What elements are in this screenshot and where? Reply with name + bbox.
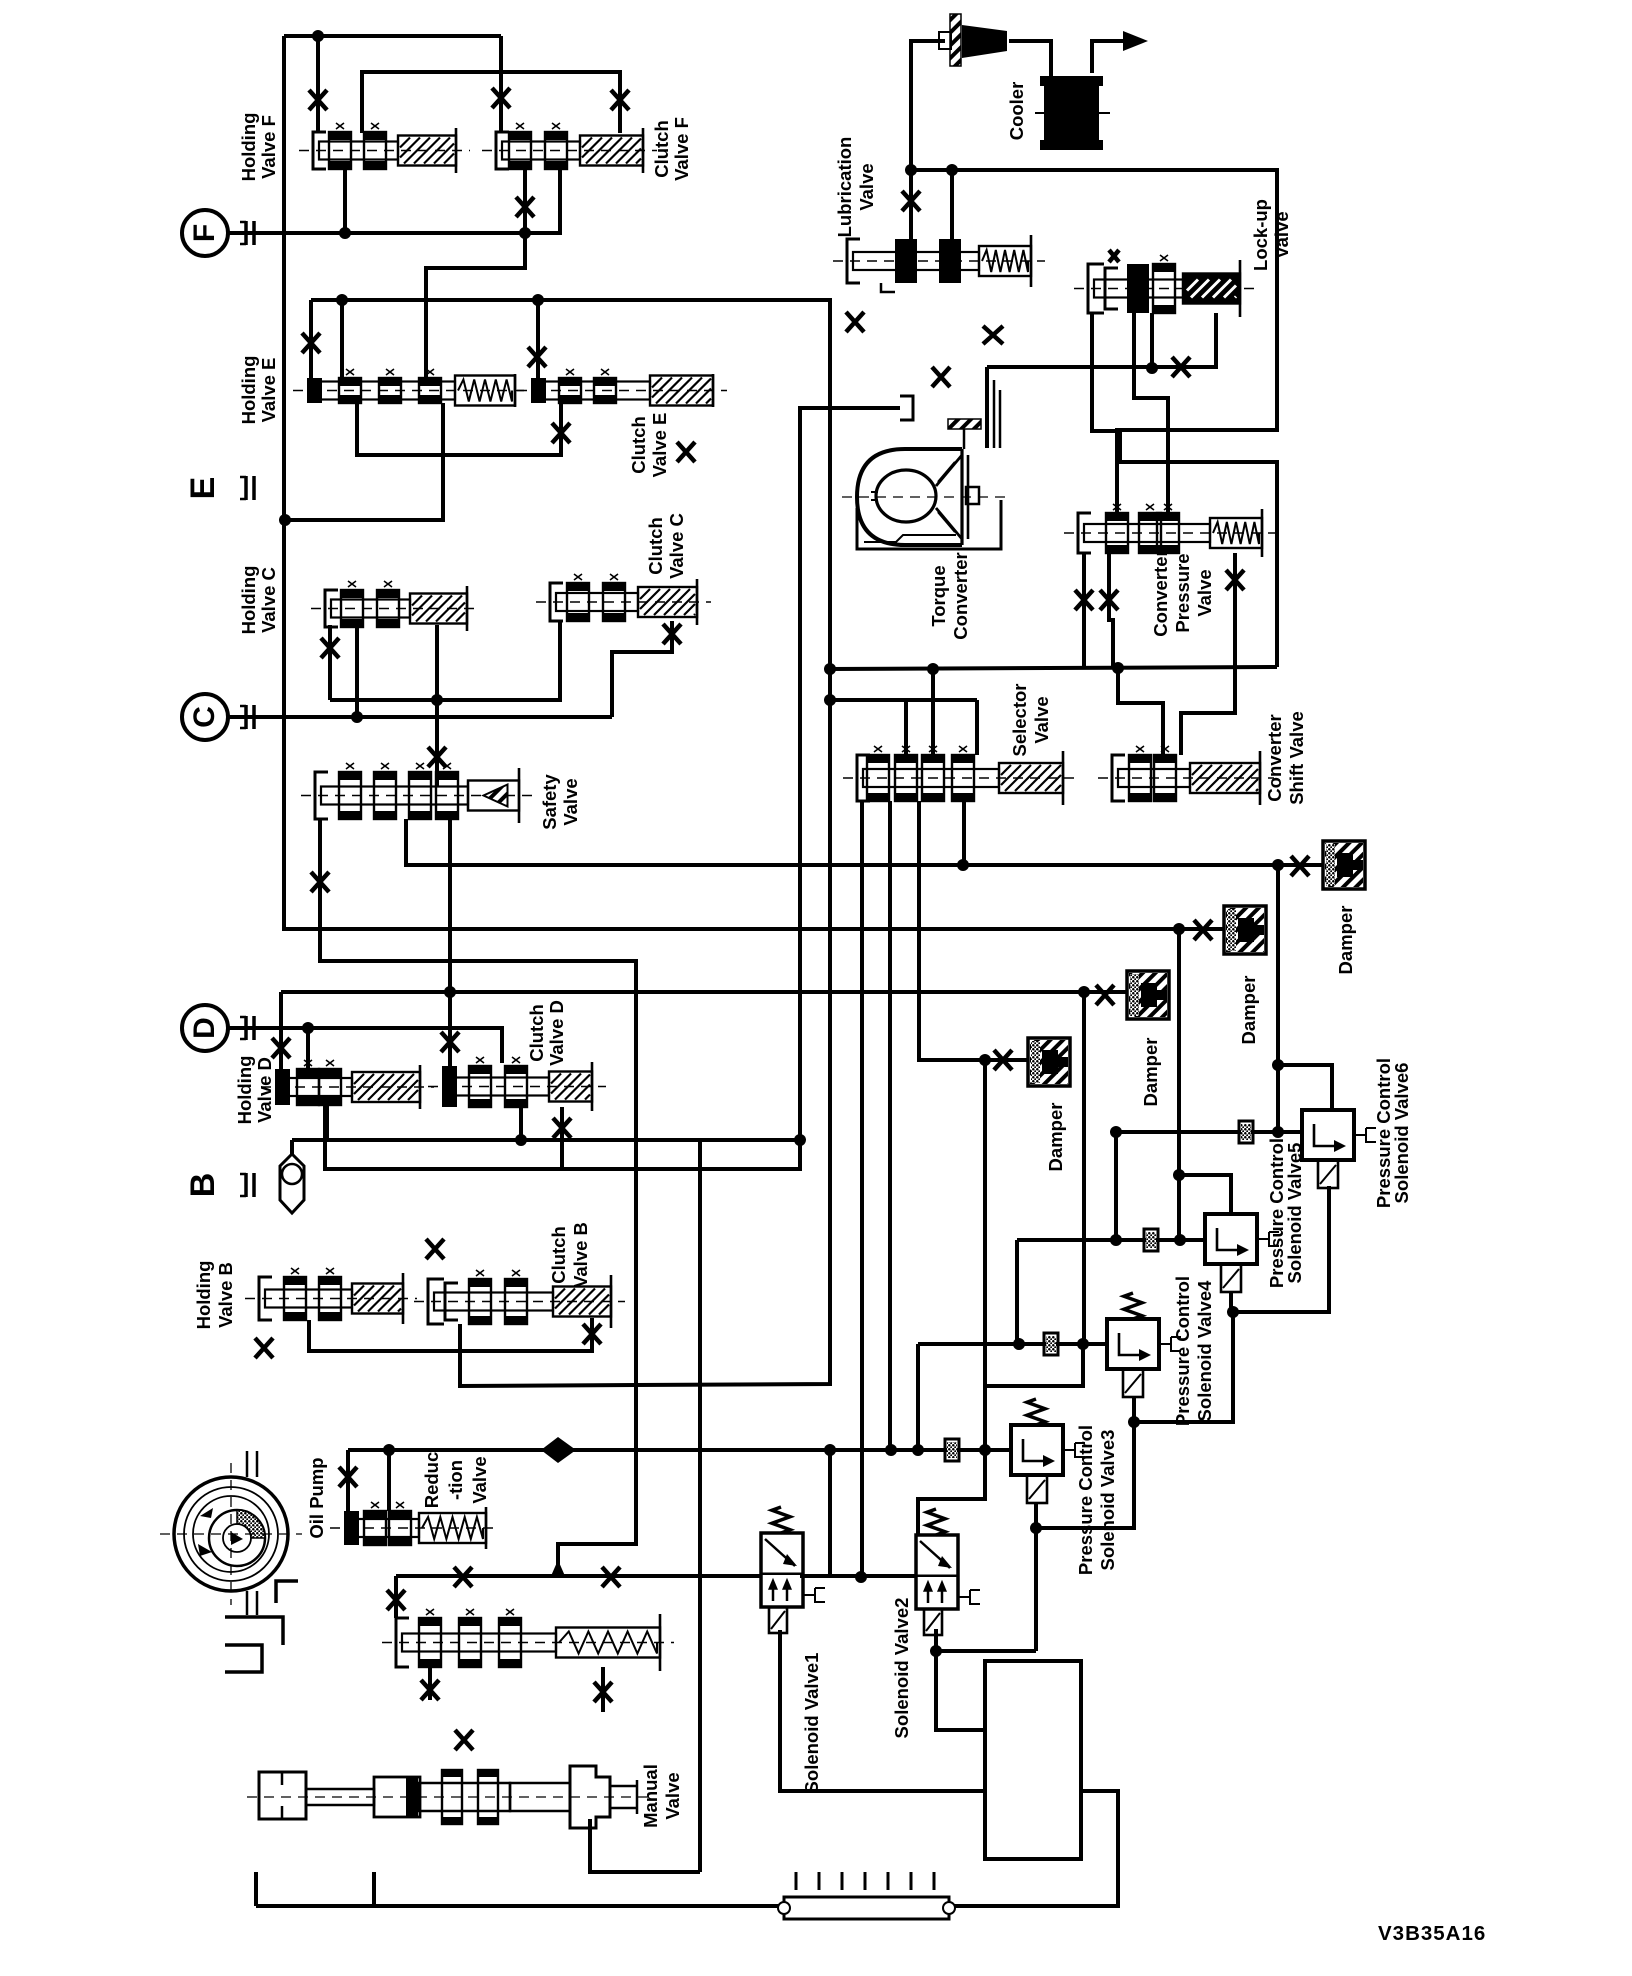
label holding valve D <box>234 1056 275 1125</box>
label damper 1 <box>1045 1103 1066 1172</box>
converter shift valve <box>1098 746 1274 805</box>
pressure control solenoid valve 6 <box>1302 1110 1376 1188</box>
orifice damper2 feed <box>1194 920 1212 940</box>
label solenoid valve 1 <box>801 1653 822 1794</box>
junction pcs5 link <box>1227 1306 1239 1318</box>
orifice damper4 feed <box>1291 856 1309 876</box>
wire sv2 loop <box>918 1450 985 1535</box>
port symbol E <box>240 476 254 500</box>
controller box <box>985 1661 1081 1859</box>
wire clutch D port1 <box>448 991 452 1066</box>
svg-text:E: E <box>184 477 222 500</box>
wire bottom suction bus <box>256 1904 784 1908</box>
junction E drain <box>279 514 291 526</box>
svg-text:Holding: Holding <box>193 1261 214 1330</box>
svg-text:Safety: Safety <box>539 774 560 830</box>
svg-text:Damper: Damper <box>1140 1038 1161 1107</box>
junction pcs4 bus a <box>1013 1338 1025 1350</box>
wire pcs5 top feed <box>1179 1175 1231 1214</box>
port symbol B <box>240 1173 254 1197</box>
wire holding C drop2 <box>355 625 359 717</box>
wire lockup port b <box>1134 313 1168 513</box>
accumulator <box>280 1154 304 1213</box>
port bracket mid <box>900 396 913 420</box>
torque converter <box>842 419 1012 549</box>
svg-text:Reduc: Reduc <box>421 1452 442 1509</box>
svg-text:Holding: Holding <box>238 356 259 425</box>
orifice safety drain <box>311 872 329 892</box>
wire pcs4 bus <box>918 1344 1107 1450</box>
wire holding E port2 drop <box>340 300 344 378</box>
damper 2 <box>1224 906 1266 954</box>
label PCS5 <box>1266 1138 1305 1288</box>
orifice tc line <box>1172 357 1190 377</box>
filter pcs5 <box>1144 1229 1158 1251</box>
junction loop 1118 <box>1112 662 1124 674</box>
svg-text:Valve: Valve <box>662 1772 683 1819</box>
wire pcs3 solenoid out <box>1034 1504 1038 1651</box>
orifice safety feed <box>428 747 446 767</box>
junction F bus crossing <box>519 227 531 239</box>
svg-text:Holding: Holding <box>234 1056 255 1125</box>
junction C bus <box>351 711 363 723</box>
svg-text:Holding: Holding <box>238 566 259 635</box>
wire main loop bus <box>830 667 1277 669</box>
junction lube port <box>905 164 917 176</box>
wire selector top line <box>830 698 977 702</box>
wire manual valve drain <box>590 1819 700 1872</box>
junction E bus a <box>336 294 348 306</box>
node D <box>182 1005 228 1051</box>
filter pcs6 <box>1239 1121 1253 1143</box>
orifice lockup top <box>1109 250 1119 262</box>
wire tc feed drop <box>985 367 989 448</box>
suction strainer <box>778 1872 955 1919</box>
wire bottom stub 2 <box>372 1872 376 1906</box>
lubrication valve tab <box>881 283 895 292</box>
svg-text:Converter: Converter <box>950 552 971 639</box>
wire C bus <box>229 715 612 719</box>
solenoid valve 1 <box>761 1533 825 1633</box>
label manual valve <box>640 1764 683 1828</box>
reduction valve <box>330 1502 500 1549</box>
wire accumulator stem <box>290 1140 294 1154</box>
solenoid valve 2 <box>916 1535 980 1635</box>
svg-text:D: D <box>188 1017 221 1039</box>
junction D line <box>302 1022 314 1034</box>
junction bus1 selector <box>957 859 969 871</box>
label converter shift valve <box>1264 711 1307 805</box>
svg-text:B: B <box>184 1173 222 1198</box>
wire clutch F drain jog <box>426 169 525 378</box>
wire regulator drain left <box>428 1667 432 1700</box>
junction bus 918 <box>912 1444 924 1456</box>
label holding valve B <box>193 1261 236 1330</box>
wire safety to D bus <box>448 819 452 992</box>
label PCS4 <box>1172 1276 1215 1426</box>
wire clutch C drain <box>612 621 672 717</box>
wire C link line <box>330 621 560 700</box>
orifice clutch F spring <box>611 90 629 110</box>
wire selector port a <box>904 700 908 755</box>
junction pcs6 bus r <box>1272 1126 1284 1138</box>
wire regulator drain spring <box>601 1667 605 1712</box>
wire main pressure bus <box>348 1448 1011 1452</box>
label clutch valve C <box>645 513 687 579</box>
wire F bus <box>229 169 560 233</box>
wire safety left drain <box>320 819 636 1574</box>
wire safety feed <box>435 625 439 786</box>
wire conv pressure pilot <box>1233 553 1237 605</box>
wire pcs5 solenoid out <box>1229 1291 1233 1312</box>
junction loop left <box>824 663 836 675</box>
wire pcs4 riser <box>1082 992 1086 1344</box>
orifice regulator left <box>387 1590 405 1610</box>
svg-text:Cooler: Cooler <box>1006 82 1027 141</box>
wire damper3 stub <box>1084 990 1127 994</box>
svg-text:Pressure: Pressure <box>1172 553 1193 632</box>
wire conv pressure drop2 <box>1109 553 1113 668</box>
wire selector down a <box>860 801 864 1576</box>
orifice clutch D drain <box>553 1118 571 1138</box>
wire holding B bottom link <box>309 1318 592 1351</box>
manual valve symbol <box>247 1766 652 1828</box>
wire link 1116 <box>1114 1132 1118 1240</box>
pressure control solenoid valve 4 <box>1107 1319 1181 1397</box>
holding valve D <box>261 1060 434 1109</box>
svg-text:Solenoid Valve4: Solenoid Valve4 <box>1194 1280 1215 1422</box>
label damper 3 <box>1140 1038 1161 1107</box>
wire pcs6 bus <box>1116 1130 1302 1134</box>
orifice clutch B drain <box>583 1324 601 1344</box>
wire D circle line <box>229 1028 502 1063</box>
wire selector port c <box>975 700 979 755</box>
arrow into regulator bus <box>551 1560 565 1576</box>
junction D bus tap <box>444 986 456 998</box>
svg-text:Damper: Damper <box>1045 1103 1066 1172</box>
holding valve C <box>311 581 481 631</box>
junction pcs6 riser mid <box>1272 1059 1284 1071</box>
svg-text:Manual: Manual <box>640 1764 661 1828</box>
svg-text:Shift Valve: Shift Valve <box>1286 711 1307 805</box>
label lock-up valve <box>1250 199 1292 271</box>
wire pcs6 top feed <box>1278 1065 1332 1110</box>
svg-text:Clutch: Clutch <box>651 120 672 178</box>
wire clutch F port drop <box>499 36 503 133</box>
svg-text:Valve: Valve <box>560 778 581 825</box>
wire clutch D bottom <box>519 1107 523 1140</box>
svg-text:C: C <box>188 706 221 728</box>
svg-text:Converter: Converter <box>1150 549 1171 636</box>
wire F loop line <box>362 72 620 133</box>
wire selector port b <box>931 669 935 755</box>
wire holding D bottom <box>325 1105 329 1140</box>
junction D return <box>515 1134 527 1146</box>
orifice conv pressure pilot <box>1226 570 1244 590</box>
spring PCS4 <box>1124 1293 1142 1319</box>
svg-text:Selector: Selector <box>1009 683 1030 756</box>
svg-text:Solenoid Valve3: Solenoid Valve3 <box>1097 1430 1118 1571</box>
orifice lubrication <box>902 191 920 211</box>
filter pcs3 <box>945 1439 959 1461</box>
orifice conv pressure 2 <box>1100 590 1118 610</box>
svg-text:F: F <box>188 224 221 242</box>
spring PCS3 <box>1027 1399 1045 1425</box>
label torque converter <box>928 552 971 639</box>
damper 1 <box>1028 1038 1070 1086</box>
junction pcs4 link <box>1128 1416 1140 1428</box>
wire strainer to ECU <box>949 1791 1118 1906</box>
wire pcs5 bus <box>1017 1240 1205 1344</box>
wire holding D port1 <box>279 992 283 1069</box>
svg-text:Valve: Valve <box>469 1456 490 1503</box>
label holding valve F <box>238 113 279 182</box>
wire cooler out arrow line <box>1092 41 1124 73</box>
label solenoid valve 2 <box>891 1598 912 1739</box>
svg-text:Torque: Torque <box>928 565 949 626</box>
svg-text:Valve D: Valve D <box>546 1000 567 1066</box>
lubrication valve <box>833 235 1045 287</box>
pressure control solenoid valve 3 <box>1011 1425 1085 1503</box>
junction bus 891 <box>885 1444 897 1456</box>
svg-text:-tion: -tion <box>445 1460 466 1500</box>
orifice damper3 feed <box>1096 985 1114 1005</box>
clutch valve B <box>414 1270 625 1328</box>
wire cooler return bus <box>911 170 1277 513</box>
port symbol F <box>240 221 254 245</box>
label converter pressure valve <box>1150 549 1215 636</box>
wire pcs6 riser <box>1276 865 1280 1132</box>
damper 3 <box>1127 971 1169 1019</box>
clutch valve E <box>517 369 727 407</box>
orifice regulator bus 1 <box>454 1567 472 1587</box>
wire torque converter line <box>987 313 1216 367</box>
junction F bus <box>339 227 351 239</box>
junction reduction feed <box>383 1444 395 1456</box>
orifice clutch B top <box>426 1239 444 1259</box>
junction pcs5 bus a <box>1110 1234 1122 1246</box>
orifice conv pressure 1 <box>1075 590 1093 610</box>
junction bus 985 <box>979 1444 991 1456</box>
svg-text:Damper: Damper <box>1238 976 1259 1045</box>
wire 830 stub <box>828 1450 832 1577</box>
holding valve F <box>299 123 470 173</box>
junction bus 830 <box>824 1444 836 1456</box>
label damper 2 <box>1238 976 1259 1045</box>
orifice pump riser <box>339 1467 357 1487</box>
breather filter <box>939 14 1007 66</box>
orifice clutch E bottom <box>552 423 570 443</box>
svg-text:Clutch: Clutch <box>548 1226 569 1284</box>
node C <box>182 694 228 740</box>
safety valve <box>301 763 533 823</box>
orifice regulator drain spring <box>594 1682 612 1702</box>
junction D return right <box>794 1134 806 1146</box>
wire holding D port2 <box>306 1028 310 1069</box>
svg-text:Holding: Holding <box>238 113 259 182</box>
wire center vertical 700 <box>698 1140 702 1872</box>
port symbol C <box>240 705 254 729</box>
svg-text:Valve: Valve <box>1194 569 1215 616</box>
orifice above manual valve <box>455 1730 473 1750</box>
orifice holding D <box>272 1038 290 1058</box>
wire holding C drop1 <box>328 625 332 700</box>
wire clutch B drain long <box>458 1384 462 1388</box>
label clutch valve B <box>548 1222 591 1288</box>
orifice regulator bus 2 <box>602 1567 620 1587</box>
orifice damper1 feed <box>994 1050 1012 1070</box>
wire cooler feed <box>1009 41 1051 76</box>
wire holding F port 1 drop <box>316 36 320 133</box>
svg-text:Lubrication: Lubrication <box>834 137 855 238</box>
junction pcs3 sol <box>1030 1522 1042 1534</box>
clutch valve F <box>482 123 657 173</box>
label reduction valve <box>421 1452 490 1509</box>
wire selector down d <box>962 801 966 865</box>
svg-text:Converter: Converter <box>1264 714 1285 801</box>
svg-text:Valve E: Valve E <box>258 358 279 423</box>
orifice holding F <box>309 90 327 110</box>
wire holding E port1 drop <box>309 300 313 378</box>
main regulator valve <box>382 1609 674 1671</box>
converter pressure valve <box>1064 504 1276 557</box>
node F <box>182 210 228 256</box>
wire D bus <box>281 990 1084 994</box>
wire regulator left port <box>394 1576 398 1618</box>
label damper 4 <box>1335 906 1356 975</box>
wire E supply bus <box>311 300 830 1386</box>
label holding valve E <box>238 356 279 425</box>
wire pcs3-pcs4 link <box>1036 1398 1134 1528</box>
svg-text:Valve F: Valve F <box>671 117 692 181</box>
junction SV2 bus <box>855 1571 867 1583</box>
junction sv2 sol <box>930 1645 942 1657</box>
svg-text:Clutch: Clutch <box>645 517 666 575</box>
label clutch valve F <box>651 117 692 181</box>
orifice clutch F <box>492 88 510 108</box>
spring SV2 <box>927 1509 945 1535</box>
clutch valve D <box>428 1057 606 1111</box>
svg-text:Pressure Control: Pressure Control <box>1075 1425 1096 1575</box>
junction top bus <box>312 30 324 42</box>
wire lubrication top loop <box>911 41 945 170</box>
wire regulator bus <box>396 1574 761 1578</box>
svg-text:Solenoid Valve5: Solenoid Valve5 <box>1284 1143 1305 1284</box>
wire lockup left drain <box>1092 313 1277 667</box>
svg-text:Damper: Damper <box>1335 906 1356 975</box>
svg-text:Valve C: Valve C <box>666 513 687 579</box>
junction E bus b <box>532 294 544 306</box>
wire clutch D drain <box>560 1107 564 1169</box>
label clutch valve D <box>526 1000 567 1066</box>
wire sv2 solenoid out <box>936 1629 1036 1651</box>
svg-text:Valve B: Valve B <box>570 1222 591 1288</box>
check valve diamond <box>541 1437 576 1463</box>
orifice holding B <box>255 1338 273 1358</box>
svg-text:Valve: Valve <box>1031 696 1052 743</box>
wire conv pressure drop1 <box>1082 553 1086 668</box>
orifice clutch E <box>528 347 546 367</box>
svg-text:Valve: Valve <box>1271 211 1292 258</box>
wire F top supply bus <box>284 34 501 38</box>
orifice holding C <box>321 638 339 658</box>
spring SV1 <box>772 1507 790 1533</box>
pressure control solenoid valve 5 <box>1205 1214 1279 1292</box>
svg-text:Valve F: Valve F <box>258 115 279 179</box>
wire pcs5-pcs6 link <box>1233 1186 1329 1312</box>
holding valve B <box>245 1268 417 1324</box>
orifice mid 1 <box>846 312 864 332</box>
label holding valve C <box>238 566 279 635</box>
wire pump riser <box>346 1450 350 1511</box>
wire 985 vertical <box>983 1060 987 1450</box>
junction selector b <box>927 663 939 675</box>
orifice clutch C drain <box>663 624 681 644</box>
port symbol D <box>240 1016 254 1040</box>
wire selector down b <box>888 801 892 1450</box>
junction tc line <box>1146 362 1158 374</box>
wire left main vertical <box>284 36 1224 929</box>
svg-text:Oil Pump: Oil Pump <box>306 1457 327 1538</box>
orifice clutch D top <box>441 1032 459 1052</box>
wire pcs3 bus link <box>985 1344 1083 1386</box>
label safety valve <box>539 774 581 830</box>
wire holding F bottom to F bus <box>343 169 347 233</box>
wire lubrication port drop <box>909 170 913 239</box>
label cooler <box>1006 82 1027 141</box>
svg-text:V3B35A16: V3B35A16 <box>1378 1922 1486 1945</box>
junction pcs5 bus b <box>1174 1234 1186 1246</box>
wire clutch E port drop <box>536 300 540 378</box>
junction lube port2 <box>946 164 958 176</box>
svg-text:Clutch: Clutch <box>628 416 649 474</box>
orifice clutch E drain end <box>677 442 695 462</box>
cooler <box>1035 76 1110 150</box>
wire lockup port c <box>1150 313 1154 368</box>
wire shift valve feed <box>1118 668 1163 755</box>
svg-text:Valve: Valve <box>856 163 877 210</box>
label PCS6 <box>1373 1058 1412 1208</box>
arrow cooler outlet <box>1123 31 1148 51</box>
holding valve E <box>293 369 529 407</box>
orifice mid 3 sideways <box>983 326 1003 344</box>
label selector valve <box>1009 683 1052 756</box>
svg-text:Solenoid Valve6: Solenoid Valve6 <box>1391 1063 1412 1204</box>
wire SV1 to SV2 bus <box>800 1574 916 1578</box>
junction bus1 end <box>1272 859 1284 871</box>
svg-text:Valve D: Valve D <box>254 1057 275 1123</box>
svg-text:Lock-up: Lock-up <box>1250 199 1271 271</box>
svg-text:Valve E: Valve E <box>649 413 670 478</box>
wire tc bundle <box>994 380 1000 448</box>
wire D lower link <box>325 408 900 1169</box>
svg-text:Solenoid Valve1: Solenoid Valve1 <box>801 1653 822 1794</box>
label oil pump <box>306 1457 327 1538</box>
filter pcs4 <box>1044 1333 1058 1355</box>
wire bottom stub 1 <box>254 1872 258 1906</box>
junction pcs4 bus b <box>1077 1338 1089 1350</box>
wire holding E bottom link <box>357 403 561 455</box>
wire selector down c <box>919 801 1028 1060</box>
wire lubrication port2 drop <box>950 170 954 239</box>
label PCS3 <box>1075 1425 1118 1575</box>
wire SV2 to ECU <box>936 1629 985 1730</box>
svg-text:Clutch: Clutch <box>526 1004 547 1062</box>
svg-text:Valve C: Valve C <box>258 567 279 633</box>
svg-text:Pressure Control: Pressure Control <box>1172 1276 1193 1426</box>
orifice holding E 1 <box>302 333 320 353</box>
junction selector top <box>824 694 836 706</box>
